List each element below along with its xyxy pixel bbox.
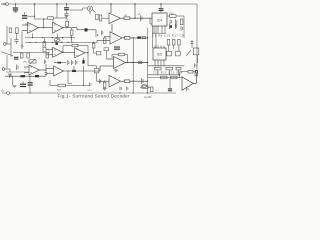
svg-text:Fig.1- Surround Sound Decoder: Fig.1- Surround Sound Decoder xyxy=(58,94,130,99)
svg-text:IC4: IC4 xyxy=(157,18,162,22)
svg-text:IC5: IC5 xyxy=(157,53,162,57)
svg-text:C6,R9 C16,R17 C8: C6,R9 C16,R17 C8 xyxy=(153,35,185,37)
svg-text:+12v: +12v xyxy=(1,2,7,6)
svg-text:no.142: no.142 xyxy=(144,96,152,99)
svg-text:C19 R23 C20 R24: C19 R23 C20 R24 xyxy=(153,72,183,74)
